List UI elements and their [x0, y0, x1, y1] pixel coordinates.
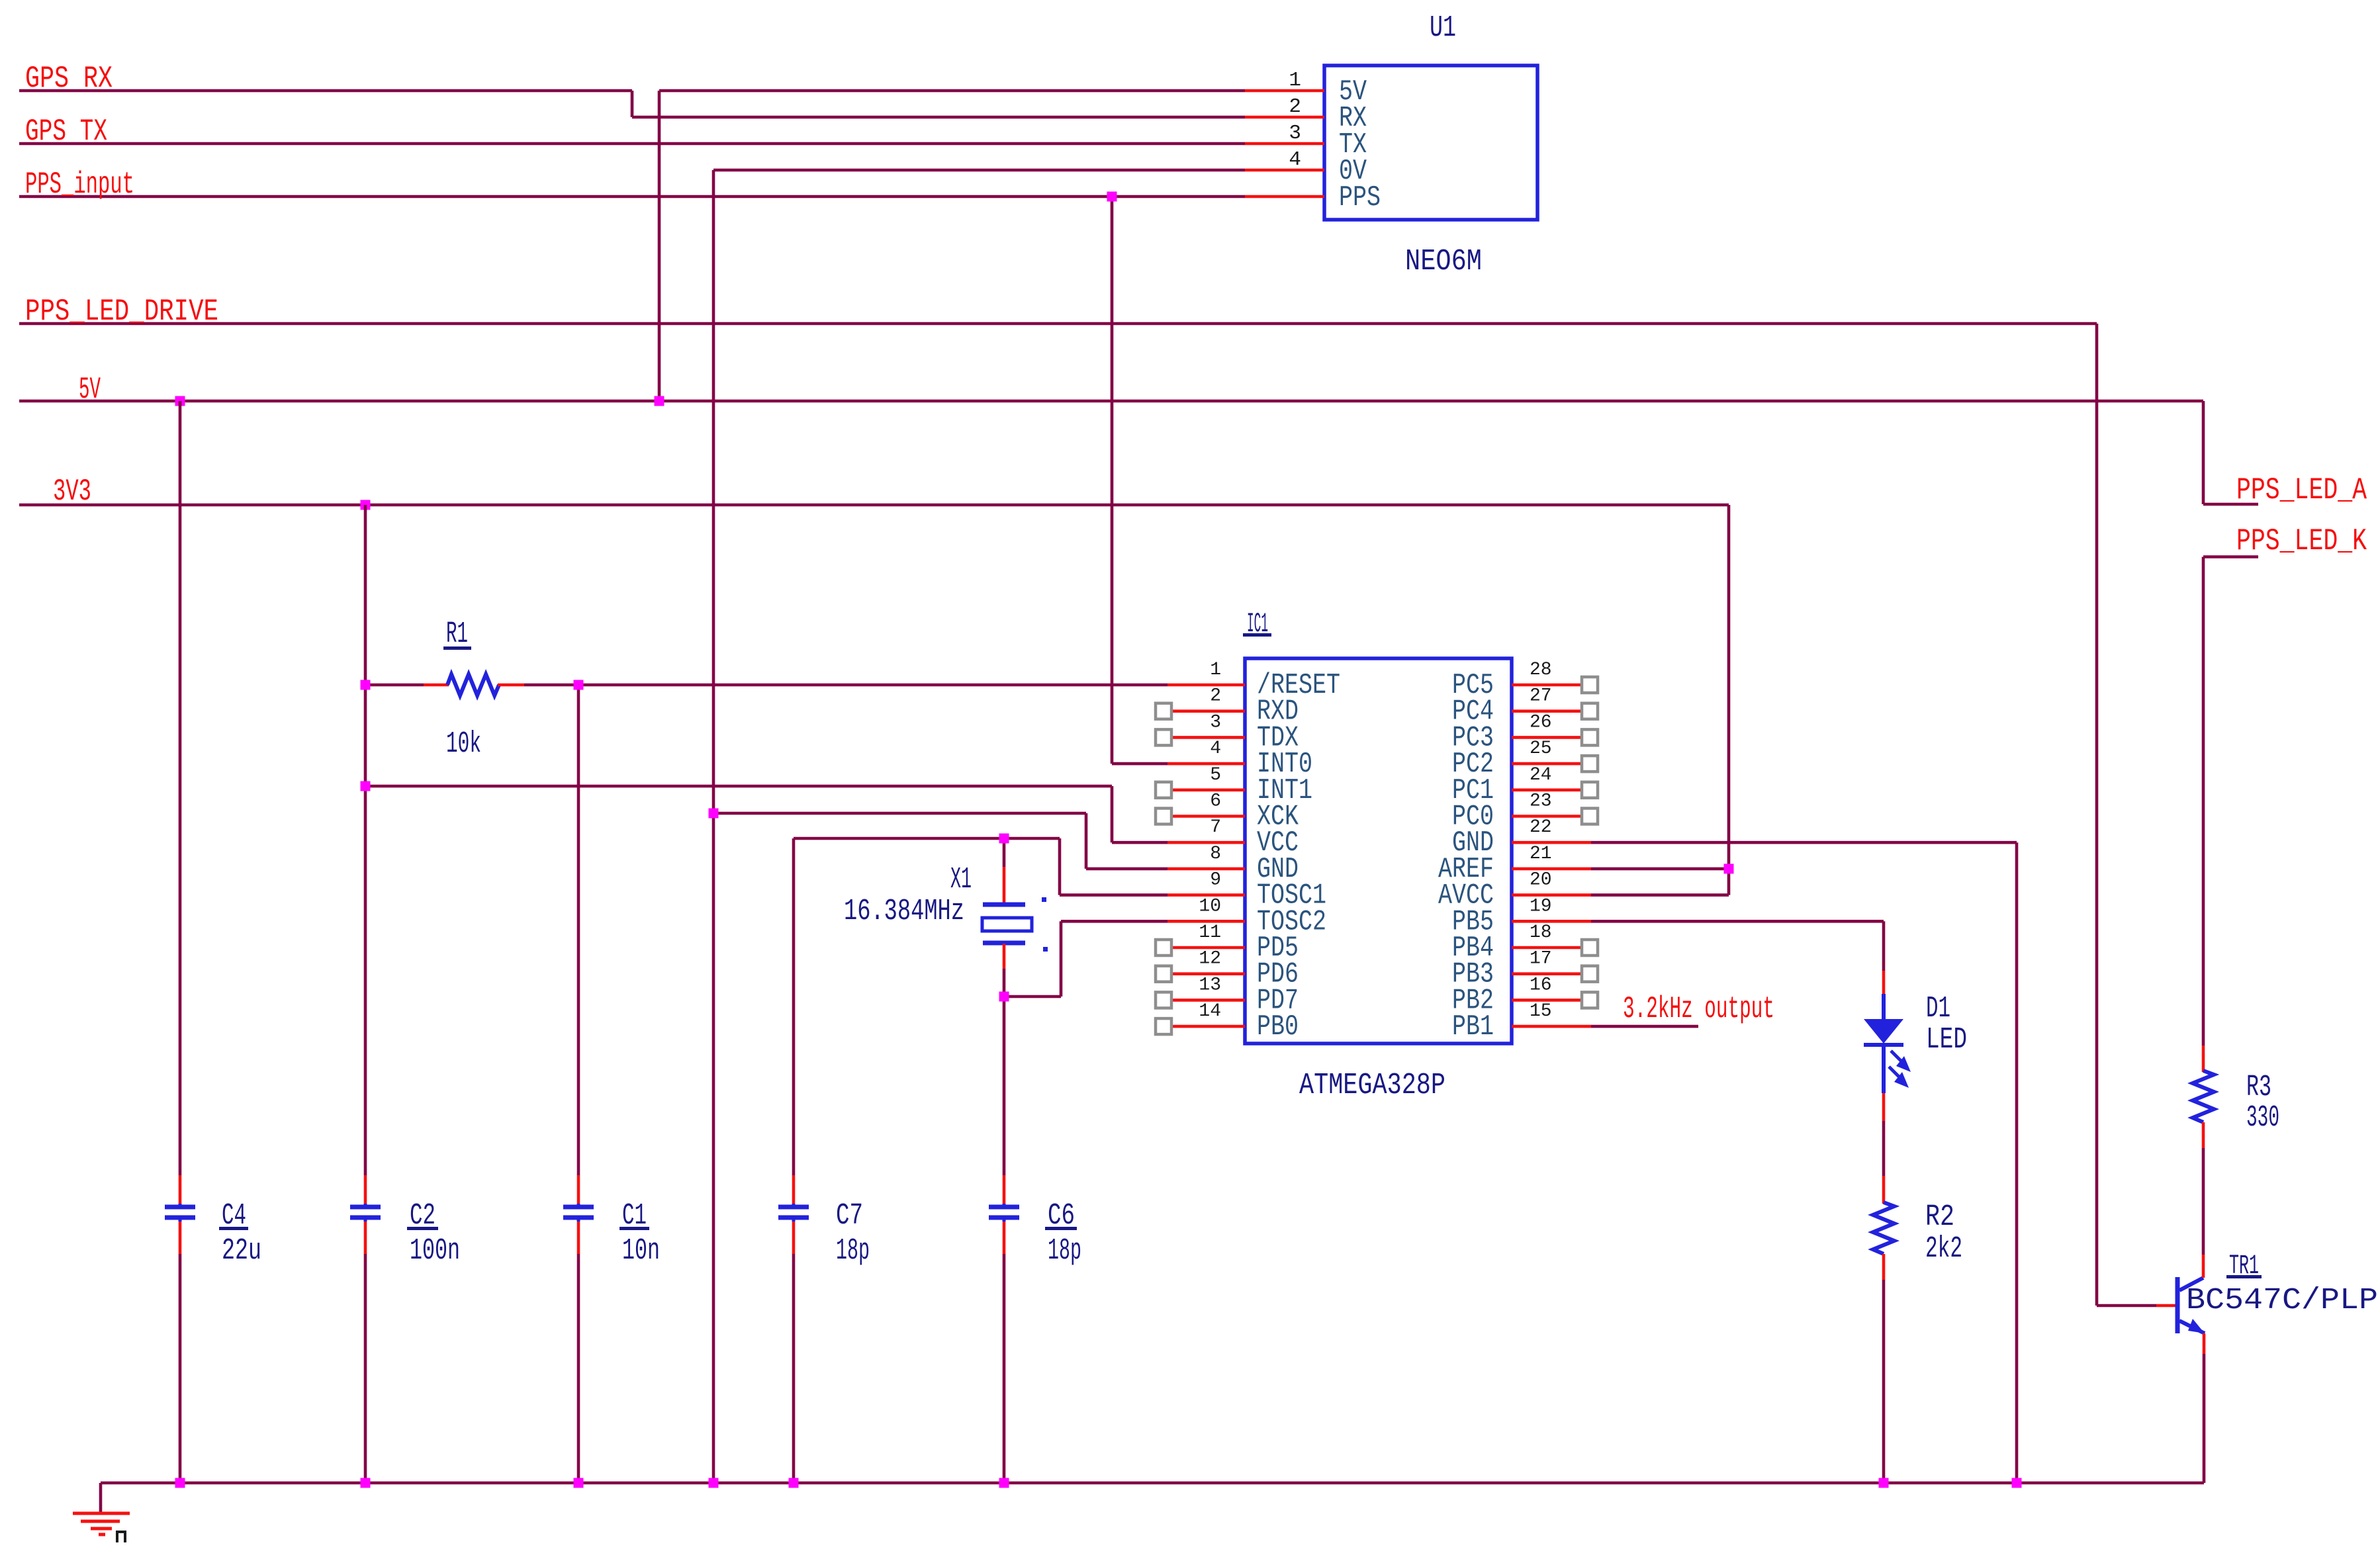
resistor R1: [424, 674, 524, 695]
svg-text:330: 330: [2246, 1101, 2279, 1135]
junction node R1 right / C1 / reset: [574, 680, 584, 690]
IC1 pin 13 unconnected marker: [1156, 992, 1171, 1008]
svg-text:7: 7: [1210, 817, 1221, 838]
junction node ground rail / C7: [789, 1478, 799, 1488]
net TOSC2 wire (X1 bottom, C6, IC1 pin10): [1004, 921, 1167, 1175]
junction node AREF tap: [1724, 864, 1734, 873]
ground symbol: [73, 1513, 130, 1542]
wire D1 cathode to R2 top: [1882, 1121, 1886, 1176]
svg-text:LED: LED: [1926, 1023, 1967, 1057]
IC1 pin 24 PC1 lead: [1512, 789, 1583, 792]
resistor R3: [2193, 1045, 2214, 1148]
IC1 pin 11 unconnected marker: [1156, 940, 1171, 956]
IC1 pin 18 unconnected marker: [1582, 940, 1598, 956]
junction node ground rail / 0V: [709, 1478, 719, 1488]
crystal X1 16.384MHz: [982, 867, 1048, 969]
wire TR1 emitter to ground rail: [2203, 1354, 2206, 1483]
junction node ground rail / C1: [574, 1478, 584, 1488]
svg-text:8: 8: [1210, 844, 1221, 864]
junction node 3V3/C2 column: [361, 500, 371, 510]
svg-text:4: 4: [1289, 148, 1301, 171]
IC1 pin 12 unconnected marker: [1156, 966, 1171, 982]
net PB1 3.2kHz output stub wire: [1591, 1025, 1698, 1028]
IC1 pin 13 PD7 lead: [1171, 999, 1245, 1002]
junction node ground rail / IC1-GND: [2012, 1478, 2022, 1488]
U1 pin 4 0V lead: [1245, 169, 1324, 172]
svg-text:BC547C/PLP: BC547C/PLP: [2186, 1284, 2378, 1317]
svg-text:24: 24: [1530, 765, 1552, 785]
red pin lead: [364, 1175, 367, 1204]
svg-text:17: 17: [1530, 949, 1552, 969]
red pin lead: [577, 1175, 580, 1204]
junction node GND branch to IC1: [709, 809, 719, 819]
IC1 pin 6 XCK lead: [1171, 815, 1245, 818]
U1 pin 1 5V lead: [1245, 89, 1324, 93]
svg-text:1: 1: [1289, 69, 1301, 92]
svg-text:18p: 18p: [836, 1234, 870, 1268]
net IC1 pin22 GND wire to ground rail: [1591, 842, 2017, 1483]
svg-text:25: 25: [1530, 738, 1552, 759]
svg-text:PPS_LED_K: PPS_LED_K: [2236, 524, 2367, 558]
net GND bottom rail: [101, 1483, 2204, 1513]
capacitor C1: [563, 1175, 594, 1254]
svg-text:C7: C7: [836, 1199, 863, 1233]
wire C2/3V3 column (3V3 rail to C2 and ground rail): [364, 505, 367, 1483]
svg-text:15: 15: [1530, 1001, 1552, 1022]
junction node ground rail / C4: [175, 1478, 185, 1488]
svg-text:2: 2: [1289, 95, 1301, 118]
junction node X1 bottom / C6: [999, 992, 1009, 1002]
wire R1 left lead net from 3V3 column: [365, 684, 424, 687]
svg-text:28: 28: [1530, 660, 1552, 680]
svg-text:18: 18: [1530, 922, 1552, 943]
junction node R1 left: [361, 680, 371, 690]
IC1 pin 9 TOSC1 lead: [1167, 893, 1245, 897]
svg-text:3: 3: [1289, 122, 1301, 145]
junction node ground rail / R2: [1879, 1478, 1889, 1488]
red pin lead: [792, 1175, 796, 1204]
svg-text:6: 6: [1210, 791, 1221, 812]
IC1 pin 8 GND lead: [1167, 867, 1245, 871]
IC1 pin 16 unconnected marker: [1582, 992, 1598, 1008]
IC1 pin 26 unconnected marker: [1582, 729, 1598, 745]
IC1 pin 17 PB3 lead: [1512, 972, 1583, 975]
capacitor C6: [989, 1175, 1019, 1254]
transistor TR1 BC547: [2156, 1255, 2205, 1354]
net PB5 wire to D1 anode column: [1591, 921, 1884, 971]
svg-text:PPS_LED_DRIVE: PPS_LED_DRIVE: [25, 294, 218, 329]
IC1 pin 11 PD5 lead: [1171, 946, 1245, 950]
junction node X1 top: [999, 834, 1009, 844]
svg-text:2: 2: [1210, 686, 1221, 707]
svg-text:PPS_input: PPS_input: [25, 167, 134, 202]
IC1 pin 19 PB5 lead: [1512, 920, 1591, 923]
svg-text:R2: R2: [1925, 1200, 1954, 1234]
svg-text:NEO6M: NEO6M: [1405, 245, 1482, 279]
U1 pin 3 TX lead: [1245, 142, 1324, 146]
svg-text:5V: 5V: [79, 373, 101, 407]
junction node 5V/C4: [175, 396, 185, 406]
net GPS_RX wire (label to U1 pin2 RX, jog at x=955): [19, 91, 1245, 117]
net /RESET wire (R1 right to IC1 pin1, C1 column): [524, 685, 1167, 1483]
net U1 0V / GND vertical wire to ground rail and IC1 pin8 GND: [713, 170, 1245, 1483]
IC1 pin 28 unconnected marker: [1582, 677, 1598, 693]
LED D1: [1864, 971, 1911, 1121]
svg-text:X1: X1: [950, 863, 972, 897]
net GPS_TX wire (label to U1 pin3 TX): [19, 142, 1245, 146]
svg-text:19: 19: [1530, 896, 1552, 916]
IC1 pin 24 unconnected marker: [1582, 782, 1598, 798]
svg-text:ATMEGA328P: ATMEGA328P: [1299, 1069, 1445, 1102]
junction node PPS_input branch: [1107, 192, 1117, 202]
IC1 pin 12 PD6 lead: [1171, 972, 1245, 975]
IC1 pin 22 GND lead: [1512, 841, 1591, 844]
svg-text:18p: 18p: [1048, 1234, 1081, 1268]
junction node ground rail / C2: [361, 1478, 371, 1488]
net 5V horizontal rail: [19, 401, 2258, 504]
IC1 pin 26 PC3 lead: [1512, 736, 1583, 739]
IC1 pin 7 VCC lead: [1167, 841, 1245, 844]
wire R3 bottom to TR1 collector: [2202, 1148, 2205, 1255]
svg-text:R1: R1: [446, 617, 468, 651]
capacitor C4: [165, 1175, 195, 1254]
svg-text:22u: 22u: [222, 1234, 261, 1268]
IC1 pin 2 RXD lead: [1171, 709, 1245, 713]
svg-text:GPS TX: GPS TX: [25, 114, 107, 149]
capacitor C2: [350, 1175, 381, 1254]
IC1 pin 6 unconnected marker: [1156, 809, 1171, 824]
IC1 pin 25 PC2 lead: [1512, 762, 1583, 766]
junction node VCC tap: [361, 781, 371, 791]
svg-text:16: 16: [1530, 975, 1552, 995]
svg-text:PB1: PB1: [1452, 1010, 1494, 1044]
IC1 pin 18 PB4 lead: [1512, 946, 1583, 950]
svg-text:23: 23: [1530, 791, 1552, 812]
svg-text:PB0: PB0: [1257, 1010, 1299, 1044]
net PPS_input wire (label to U1 PPS pin and down to IC1 INT0): [19, 197, 1245, 764]
svg-text:3V3: 3V3: [53, 474, 91, 509]
svg-text:1: 1: [1210, 660, 1221, 680]
svg-text:22: 22: [1530, 817, 1552, 838]
IC1 pin 23 unconnected marker: [1582, 809, 1598, 824]
svg-text:100n: 100n: [410, 1234, 460, 1268]
wire C4 column (5V rail to C4 and ground rail): [179, 401, 182, 1483]
svg-text:12: 12: [1199, 949, 1221, 969]
wire R2 bottom to ground rail: [1882, 1280, 1886, 1483]
IC1 pin 27 unconnected marker: [1582, 703, 1598, 719]
IC1 pin 1 /RESET lead: [1167, 684, 1245, 687]
capacitor C7: [778, 1175, 809, 1254]
svg-text:PPS: PPS: [1339, 181, 1381, 214]
svg-text:11: 11: [1199, 922, 1221, 943]
wire C6 bottom to ground rail: [1003, 1254, 1006, 1483]
svg-text:5: 5: [1210, 765, 1221, 785]
svg-text:2k2: 2k2: [1925, 1232, 1962, 1266]
junction node ground rail / C6: [999, 1478, 1009, 1488]
net PPS_LED_DRIVE wire (label to TR1 base): [19, 324, 2156, 1306]
net 3V3 horizontal rail to AREF/AVCC: [19, 505, 1729, 895]
IC1 pin 3 TDX lead: [1171, 736, 1245, 739]
IC1 pin 16 PB2 lead: [1512, 999, 1583, 1002]
svg-text:4: 4: [1210, 738, 1221, 759]
U1 pin 5 PPS lead: [1245, 195, 1324, 199]
IC1 pin 3 unconnected marker: [1156, 729, 1171, 745]
net TOSC1 wire (C7, X1 top, IC1 pin9): [794, 838, 1167, 1175]
red pin lead: [179, 1175, 182, 1204]
IC1 pin 17 unconnected marker: [1582, 966, 1598, 982]
svg-text:D1: D1: [1926, 992, 1950, 1026]
svg-text:U1: U1: [1430, 11, 1456, 45]
svg-text:13: 13: [1199, 975, 1221, 995]
svg-text:PPS_LED_A: PPS_LED_A: [2236, 473, 2367, 508]
svg-text:20: 20: [1530, 870, 1552, 891]
IC1 pin 2 unconnected marker: [1156, 703, 1171, 719]
svg-text:21: 21: [1530, 844, 1552, 864]
resistor R2: [1873, 1176, 1894, 1280]
svg-text:14: 14: [1199, 1001, 1221, 1022]
net VCC feed wire (3V3 column to IC1 pin7 VCC): [365, 786, 1167, 842]
IC1 pin 10 TOSC2 lead: [1167, 920, 1245, 923]
svg-text:10k: 10k: [446, 727, 481, 761]
svg-text:16.384MHz: 16.384MHz: [844, 895, 964, 928]
svg-text:3.2kHz output: 3.2kHz output: [1623, 992, 1774, 1026]
IC1 pin 27 PC4 lead: [1512, 709, 1583, 713]
svg-text:26: 26: [1530, 712, 1552, 733]
net PPS_LED_K wire (label to R3 top): [2203, 557, 2258, 1046]
IC1 pin 15 PB1 lead: [1512, 1025, 1591, 1028]
IC1 pin 5 INT1 lead: [1171, 789, 1245, 792]
IC1 pin 21 AREF lead: [1512, 867, 1591, 871]
GPS module U1 box: [1324, 66, 1537, 220]
wire C7 bottom to ground rail: [792, 1254, 796, 1483]
microcontroller IC1 box: [1245, 658, 1512, 1044]
svg-text:3: 3: [1210, 712, 1221, 733]
net 5V wire to U1 pin1: [659, 91, 1245, 401]
IC1 pin 5 unconnected marker: [1156, 782, 1171, 798]
IC1 pin 28 PC5 lead: [1512, 684, 1583, 687]
svg-text:10: 10: [1199, 896, 1221, 916]
IC1 pin 23 PC0 lead: [1512, 815, 1583, 818]
IC1 pin 25 unconnected marker: [1582, 756, 1598, 772]
svg-text:9: 9: [1210, 870, 1221, 891]
svg-text:GPS RX: GPS RX: [25, 62, 113, 96]
svg-text:R3: R3: [2246, 1071, 2271, 1104]
red pin lead: [1003, 1175, 1006, 1204]
IC1 pin 4 INT0 lead: [1167, 762, 1245, 766]
U1 pin 2 RX lead: [1245, 116, 1324, 119]
IC1 pin 14 unconnected marker: [1156, 1018, 1171, 1034]
svg-text:10n: 10n: [622, 1234, 660, 1268]
svg-text:27: 27: [1530, 686, 1552, 707]
IC1 pin 14 PB0 lead: [1171, 1025, 1245, 1028]
junction node 5V/U1: [655, 396, 664, 406]
IC1 pin 20 AVCC lead: [1512, 893, 1591, 897]
